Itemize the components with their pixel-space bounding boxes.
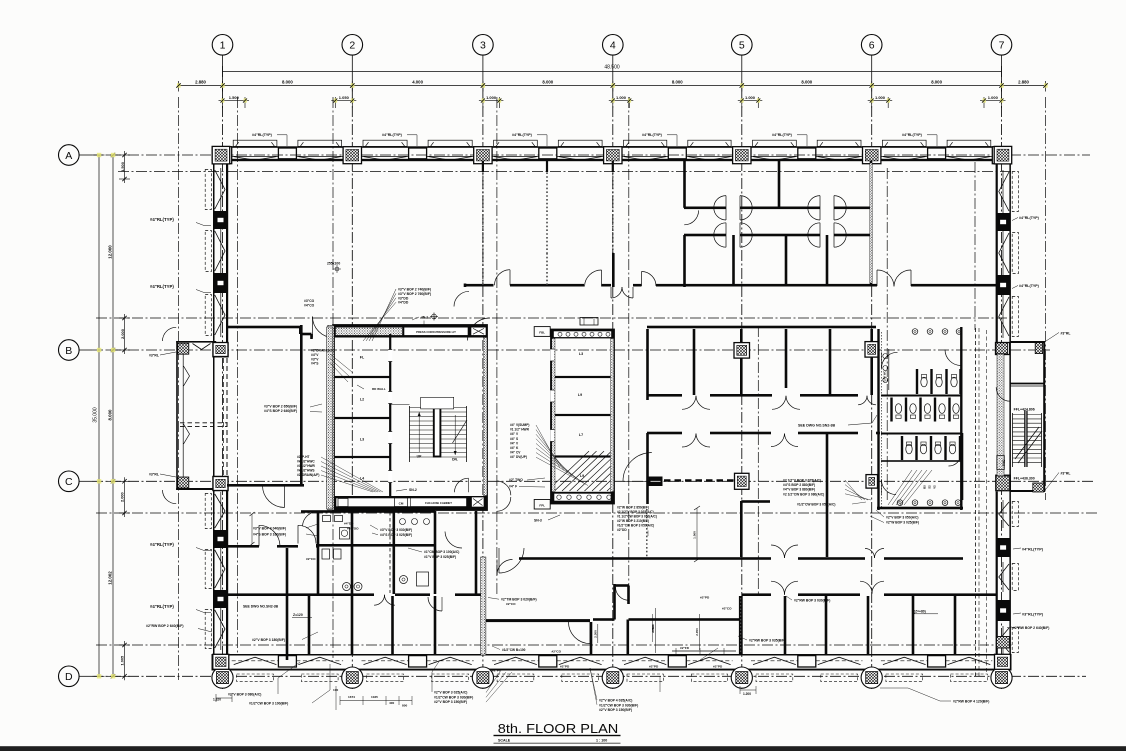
svg-text:6: 6	[869, 40, 875, 52]
svg-text:#4"S BOP 3 025(B/F): #4"S BOP 3 025(B/F)	[380, 533, 412, 537]
column at grid 6 / top wall	[863, 147, 881, 164]
svg-text:#3"DD: #3"DD	[398, 296, 409, 300]
svg-text:1.000: 1.000	[988, 95, 999, 100]
door arc x590	[569, 622, 591, 644]
svg-text:#2 1/2"V BOP 3 025(A/C): #2 1/2"V BOP 3 025(A/C)	[617, 510, 654, 514]
svg-text:#1/2"CW BOP 3 100(B/F): #1/2"CW BOP 3 100(B/F)	[249, 702, 288, 706]
window bay 3-4 mullion pier	[539, 148, 557, 159]
svg-text:FBL: FBL	[539, 331, 545, 335]
svg-text:(Z=+80): (Z=+80)	[914, 610, 926, 614]
svg-text:#1/2"CW BOP 3 050(A/C): #1/2"CW BOP 3 050(A/C)	[797, 503, 836, 507]
grid3 lower wall	[481, 557, 486, 655]
svg-text:2.000: 2.000	[120, 329, 125, 339]
wall room divider x684 upper	[683, 161, 686, 208]
svg-text:#1"V BOP 3 025(B/F): #1"V BOP 3 025(B/F)	[424, 555, 456, 559]
lift door notch	[388, 432, 392, 444]
svg-text:SEE DWG NO.SN2-3B: SEE DWG NO.SN2-3B	[243, 605, 279, 609]
wall notch NE room	[299, 327, 302, 334]
svg-text:8.000: 8.000	[931, 79, 942, 84]
bottom dark bar	[0, 746, 1126, 751]
vertical mini dim 2.350	[699, 614, 701, 650]
column circle at grid 6 / D	[861, 667, 882, 688]
svg-text:#3"CO: #3"CO	[304, 299, 315, 303]
svg-text:SCALE: SCALE	[498, 738, 511, 742]
wall band south y395.3	[647, 394, 682, 397]
svg-text:L9: L9	[580, 474, 584, 478]
wall bottom room divider x785	[784, 596, 787, 654]
svg-text:2.880: 2.880	[1018, 79, 1029, 84]
svg-text:#2"CO: #2"CO	[306, 557, 316, 561]
grid bubble B	[59, 340, 92, 361]
right window	[1002, 231, 1004, 275]
auxiliary grid line	[886, 168, 888, 500]
svg-text:#4"RL(TYP): #4"RL(TYP)	[252, 133, 273, 137]
svg-text:35.000: 35.000	[93, 407, 99, 423]
wall x741 lower	[740, 501, 743, 557]
svg-text:#1 1/2"CW BOP 3 050(A/C): #1 1/2"CW BOP 3 050(A/C)	[617, 515, 657, 519]
svg-text:4N-1: 4N-1	[421, 316, 428, 320]
wall service corridor south y433	[647, 432, 682, 435]
svg-text:#4" V: #4" V	[510, 441, 519, 445]
svg-text:1.000: 1.000	[486, 95, 497, 100]
grid bubble C	[59, 471, 92, 492]
column circle at grid 3 / D	[472, 667, 493, 688]
wall corridor north main	[464, 284, 494, 287]
grid bubble 4	[603, 35, 624, 89]
grid line 1	[222, 88, 224, 689]
bottom mullion pier	[928, 656, 946, 667]
grid bubble 1	[212, 35, 233, 89]
svg-text:#2"DD: #2"DD	[617, 528, 627, 532]
wall room divider x786 band	[785, 329, 788, 388]
wall x591 entrance	[590, 622, 593, 654]
svg-text:#3"RL: #3"RL	[149, 473, 159, 477]
column right wall at B	[996, 343, 1010, 355]
svg-text:#4"V: #4"V	[311, 353, 319, 357]
highlighter mark	[97, 479, 101, 483]
door arc vestibule x641	[642, 272, 657, 287]
hatched block FHE right wall	[997, 637, 1010, 649]
window bay 1-2 window 2	[296, 155, 343, 157]
lift door notch core B	[550, 349, 554, 361]
svg-text:V2: V2	[933, 485, 937, 489]
wall cap x464	[464, 284, 467, 288]
right window	[1002, 295, 1004, 338]
door arcs under band y395	[682, 396, 696, 410]
bottom window	[362, 660, 409, 662]
svg-text:FPL: FPL	[539, 503, 545, 507]
bottom window	[557, 660, 604, 662]
lift door notch core B	[550, 390, 554, 402]
svg-text:#4"RL(TYP): #4"RL(TYP)	[150, 542, 174, 547]
double swing doors corridor x827	[808, 196, 820, 208]
svg-text:L3: L3	[360, 438, 364, 442]
svg-text:#4" S: #4" S	[510, 437, 518, 441]
svg-text:2.000: 2.000	[120, 492, 125, 502]
svg-text:#2"PD: #2"PD	[492, 669, 502, 673]
label 2.500 dim	[654, 608, 656, 653]
column at grid 5 / top wall	[733, 147, 751, 164]
wall band north y327	[647, 326, 876, 329]
left wall dashed segment at stair bay	[226, 342, 228, 490]
svg-text:#4"DD: #4"DD	[398, 301, 409, 305]
corner column grid7/A	[994, 146, 1012, 164]
grid line 3	[482, 88, 484, 689]
bottom window	[427, 660, 474, 662]
svg-text:#4"RL(TYP): #4"RL(TYP)	[150, 604, 174, 609]
right mullion pier	[996, 600, 1010, 621]
auxiliary grid line	[178, 97, 180, 680]
left window	[220, 293, 222, 337]
window bay 2-3 window 2	[427, 155, 474, 157]
wall x287 tall	[286, 548, 289, 660]
svg-text:B5: B5	[923, 485, 927, 489]
left window	[220, 492, 222, 530]
column left wall lower	[213, 343, 228, 357]
svg-text:#4"RL(TYP): #4"RL(TYP)	[772, 133, 793, 137]
column circle at grid 7 / D	[991, 667, 1012, 688]
grid bubble 5	[732, 35, 753, 89]
highlighter mark	[97, 674, 101, 678]
partition stub	[546, 161, 548, 172]
left exterior wall outer line	[213, 146, 215, 660]
svg-text:L3: L3	[579, 352, 583, 356]
svg-text:2.350: 2.350	[695, 628, 699, 636]
wall x547 lower dotted	[546, 253, 548, 285]
overall dimension 35.000	[98, 155, 100, 676]
svg-text:5: 5	[739, 40, 745, 52]
svg-text:#4"RL(TYP): #4"RL(TYP)	[150, 217, 174, 222]
stair treads core A	[410, 407, 467, 409]
dashed partition east of toilets	[975, 328, 977, 676]
column right wall at C	[996, 475, 1011, 491]
svg-text:#H1/2"HWS: #H1/2"HWS	[297, 469, 314, 473]
column bump-out bottom	[213, 477, 228, 491]
wall x740 lower thick	[739, 596, 743, 655]
svg-text:#2"PD: #2"PD	[700, 596, 710, 600]
svg-text:Z=120: Z=120	[293, 613, 303, 617]
svg-text:#4"TOO: #4"TOO	[347, 527, 359, 531]
svg-text:D: D	[65, 671, 73, 683]
dimension chain top	[179, 85, 1046, 87]
right mullion pier	[996, 213, 1010, 231]
small dimensions top	[219, 100, 250, 102]
wall grid4 lower solid	[612, 253, 615, 287]
door arc bump-out top exterior	[163, 327, 177, 341]
window bay 1-2 window 1	[232, 155, 279, 157]
bottom window	[232, 660, 279, 662]
wall room divider x684 lower	[683, 235, 686, 287]
svg-text:1.000: 1.000	[745, 95, 756, 100]
svg-text:#2"V BOP 3 050(A/C): #2"V BOP 3 050(A/C)	[886, 516, 918, 520]
grid line 4	[612, 88, 614, 689]
svg-text:UP: UP	[417, 455, 422, 459]
window bay 5-6 window 2	[816, 155, 863, 157]
window bay 5-6 mullion pier	[798, 148, 816, 159]
svg-text:#2 1/2"V BOP 3 025(A/C): #2 1/2"V BOP 3 025(A/C)	[783, 479, 821, 483]
svg-text:#2"V BOP 4 035(A/C): #2"V BOP 4 035(A/C)	[599, 699, 632, 703]
svg-text:2.880: 2.880	[195, 79, 206, 84]
column left wall at C	[213, 477, 228, 491]
door arc toilets NE	[945, 350, 961, 366]
svg-text:4.000: 4.000	[412, 79, 423, 84]
wall south corridor east y620.6	[486, 619, 590, 622]
right exterior wall outer line	[1009, 146, 1011, 670]
svg-text:800: 800	[402, 704, 407, 708]
wall room divider x733 lower	[732, 235, 735, 285]
bottom mullion pier	[409, 656, 427, 667]
svg-text:#4" DV(UP): #4" DV(UP)	[510, 455, 527, 459]
top exterior wall inner line	[212, 159, 1012, 161]
auxiliary grid line	[96, 317, 1012, 319]
svg-text:SN-2: SN-2	[409, 488, 417, 492]
door arc y546.3	[259, 525, 280, 546]
svg-text:8.000: 8.000	[282, 79, 293, 84]
window bay 4-5 mullion pier	[668, 148, 686, 159]
double swing doors corridor x733	[714, 196, 726, 208]
grid line 7	[1001, 88, 1003, 689]
svg-text:#4"RL(TYP): #4"RL(TYP)	[642, 133, 663, 137]
wall room divider x779	[778, 161, 781, 208]
bottom mullion pier	[668, 656, 686, 667]
highlighter mark	[111, 153, 115, 157]
column C/5 hatched	[735, 473, 750, 489]
svg-text:#3"RL: #3"RL	[1061, 332, 1071, 336]
svg-text:#3"RL: #3"RL	[149, 354, 159, 358]
svg-text:#3"V BOP 3 040(B/F): #3"V BOP 3 040(B/F)	[253, 527, 286, 531]
grid line B	[92, 349, 1050, 351]
auxiliary grid line	[96, 512, 1098, 514]
svg-text:1.000: 1.000	[875, 95, 886, 100]
wall left room y485.3	[227, 484, 304, 487]
fire shutter dashed line at C	[664, 479, 736, 481]
door arc washroom NW	[303, 511, 319, 526]
grid line D	[92, 675, 1086, 677]
left exterior wall inner line C-D	[226, 490, 228, 655]
svg-text:#2"PD: #2"PD	[649, 665, 659, 669]
svg-text:#3"V BOP 2 650(B/F): #3"V BOP 2 650(B/F)	[264, 405, 297, 409]
svg-text:FHC: FHC	[1002, 459, 1006, 466]
svg-text:CM: CM	[399, 501, 404, 505]
svg-text:#4"RL(TYP): #4"RL(TYP)	[902, 133, 923, 137]
svg-text:8.000: 8.000	[108, 409, 113, 421]
stud partition (dotted)	[546, 161, 548, 253]
dimension chain left	[112, 155, 114, 676]
svg-text:#3"RL(TYP): #3"RL(TYP)	[1022, 613, 1044, 617]
grid bubble 6	[861, 35, 882, 89]
svg-text:#2"DRAIN(A/F): #2"DRAIN(A/F)	[311, 349, 334, 353]
svg-text:SN-3: SN-3	[534, 519, 542, 523]
wall grid3 lower dotted	[482, 253, 484, 285]
grid line C	[92, 480, 1093, 482]
corner column grid1/D	[213, 654, 229, 669]
svg-text:1 : 100: 1 : 100	[596, 738, 607, 742]
door arc toilets SE	[949, 454, 962, 467]
left mullion pier	[214, 530, 228, 548]
wall x476 rooms	[475, 511, 478, 594]
door arc toilets upper	[882, 352, 898, 368]
door arc corridor west	[313, 317, 334, 338]
right mullion pier	[996, 538, 1010, 557]
door arcs lift lobby south	[497, 481, 511, 495]
svg-text:1: 1	[220, 40, 226, 52]
right window	[1002, 170, 1004, 213]
svg-text:#2"RW BOP 2 640(B/F): #2"RW BOP 2 640(B/F)	[146, 624, 184, 628]
svg-text:A: A	[65, 150, 72, 162]
door arc vestibule grid4	[616, 587, 629, 600]
svg-text:B: B	[65, 345, 72, 357]
column circle at grid 2 / D	[342, 667, 363, 688]
auxiliary grid line	[332, 97, 334, 658]
door arcs above y558.5	[771, 545, 785, 558]
svg-text:#2"CO: #2"CO	[506, 602, 516, 606]
wall bottom room divider x392.5	[391, 596, 394, 654]
auxiliary grid line	[757, 326, 759, 594]
bottom mullion pier	[278, 656, 296, 667]
svg-text:8.000: 8.000	[672, 79, 683, 84]
wall y501 stub	[741, 500, 770, 503]
svg-text:7: 7	[999, 40, 1005, 52]
highlighter mark	[111, 674, 115, 678]
column circle at grid 4 / D	[602, 667, 623, 688]
wall room divider x827 lower	[826, 235, 829, 285]
overall dimension 48.500	[223, 71, 1002, 73]
svg-text:#4"S BOP 2 880(B/F): #4"S BOP 2 880(B/F)	[783, 483, 815, 487]
core A stair/lift block	[334, 326, 487, 510]
window bay 2-3 window 1	[362, 155, 409, 157]
svg-text:#G1/2"HWR: #G1/2"HWR	[297, 464, 316, 468]
bottom exterior wall outer line	[212, 669, 1012, 671]
svg-text:1025: 1025	[371, 695, 378, 699]
top wall left cap	[212, 146, 214, 161]
door arc x462	[445, 532, 462, 549]
svg-text:#3"V BOP 3 030(B/F): #3"V BOP 3 030(B/F)	[380, 528, 412, 532]
corner column grid1/A	[212, 146, 230, 164]
svg-text:8.000: 8.000	[801, 79, 812, 84]
left mullion pier	[214, 590, 228, 608]
svg-text:8.000: 8.000	[542, 79, 553, 84]
door arcs under y433	[682, 434, 696, 448]
wall room divider x786 lower	[785, 235, 788, 285]
svg-text:#2"RW BOP 4 120(B/F): #2"RW BOP 4 120(B/F)	[953, 700, 989, 704]
washrooms centre	[317, 511, 320, 594]
bottom window	[751, 660, 798, 662]
window bay 4-5 window 1	[622, 155, 668, 157]
wall x963 toilets south block	[961, 433, 964, 500]
wall bottom room divider x435	[434, 596, 437, 654]
right exterior wall inner line A-B	[996, 161, 998, 342]
svg-text:#2"PD: #2"PD	[560, 665, 570, 669]
bottom window	[622, 660, 668, 662]
right mullion pier	[996, 275, 1010, 295]
auxiliary grid line	[974, 162, 976, 330]
svg-text:#1/2"CW B=100: #1/2"CW B=100	[502, 648, 526, 652]
svg-text:FFL+424.806: FFL+424.806	[1014, 407, 1035, 411]
grid bubble 3	[473, 35, 494, 89]
grid line 6	[871, 88, 873, 689]
svg-text:L9: L9	[578, 393, 582, 397]
svg-text:1.000: 1.000	[616, 95, 627, 100]
svg-text:FFL+436.300: FFL+436.300	[1014, 476, 1035, 480]
stud partition (dotted)	[482, 161, 484, 253]
svg-text:#4"DD: #4"DD	[344, 522, 354, 526]
svg-text:#2" TWO: #2" TWO	[509, 478, 523, 482]
corner column grid7/D	[995, 654, 1011, 669]
wall room divider x871	[870, 161, 873, 285]
box FPL	[534, 500, 550, 510]
right window	[1002, 500, 1004, 528]
wall bottom room divider x826	[825, 596, 828, 654]
window bay 4-5 window 2	[686, 155, 732, 157]
svg-text:#4" V: #4" V	[510, 432, 519, 436]
column at grid 1 / top wall	[213, 147, 231, 164]
left exterior wall inner line A-B	[226, 161, 228, 342]
svg-text:#2"TM BOP 3 020(B/F): #2"TM BOP 3 020(B/F)	[501, 598, 537, 602]
door arc stair exit	[455, 478, 469, 492]
survey cross mark	[432, 314, 437, 319]
bottom window	[946, 660, 993, 662]
svg-text:1.200: 1.200	[743, 692, 751, 696]
svg-text:#2"PD: #2"PD	[713, 665, 723, 669]
svg-text:#2"CO: #2"CO	[722, 607, 732, 611]
svg-text:#3"RL: #3"RL	[1061, 472, 1071, 476]
wall bottom room divider x868	[867, 596, 870, 654]
svg-text:8th. FLOOR PLAN: 8th. FLOOR PLAN	[498, 722, 619, 736]
right stair bump-out with stair	[1010, 341, 1045, 343]
svg-text:#3"V BOP 2 740(B/F): #3"V BOP 2 740(B/F)	[398, 288, 431, 292]
column at grid 4 / top wall	[604, 147, 622, 164]
svg-text:#4"RL(TYP): #4"RL(TYP)	[1019, 216, 1040, 220]
bottom wall right cap	[1010, 654, 1012, 671]
partition stub	[482, 161, 484, 172]
svg-text:#2"V BOP 3 150(B/F): #2"V BOP 3 150(B/F)	[599, 708, 632, 712]
svg-text:#2"RW BOP 3 035(B/F): #2"RW BOP 3 035(B/F)	[749, 639, 785, 643]
svg-text:100: 100	[333, 688, 338, 692]
column B/6	[865, 342, 879, 358]
lift door notch	[388, 350, 392, 362]
column bump-out top	[213, 343, 228, 357]
window bay 1-2 mullion pier	[278, 148, 296, 159]
grid bubble A	[59, 145, 92, 166]
window bay 6-7 mullion pier	[928, 148, 946, 159]
window bay 3-4 window 2	[557, 155, 604, 157]
window bay 6-7 window 1	[881, 155, 928, 157]
bottom window	[686, 660, 732, 662]
left window	[220, 168, 222, 211]
window bay 2-3 mullion pier	[409, 148, 427, 159]
bottom window	[816, 660, 863, 662]
svg-text:L7: L7	[579, 433, 583, 437]
svg-text:#4"S BOP 3 160(B/F): #4"S BOP 3 160(B/F)	[253, 533, 286, 537]
bottom window	[296, 660, 343, 662]
svg-text:12.000: 12.000	[108, 245, 113, 259]
svg-text:#1 1/2" HWR: #1 1/2" HWR	[510, 428, 530, 432]
svg-text:L2: L2	[360, 398, 364, 402]
right window	[1002, 626, 1004, 654]
door arc vestibule	[684, 210, 698, 224]
grid line 2	[351, 88, 353, 689]
svg-text:S2: S2	[928, 485, 932, 489]
wall bottom room divider x352	[351, 596, 354, 654]
core B lift block	[552, 330, 614, 503]
auxiliary grid line	[1045, 97, 1047, 500]
svg-text:#2"DRAIN(A/F): #2"DRAIN(A/F)	[297, 473, 319, 477]
svg-text:#2"CO: #2"CO	[552, 649, 562, 653]
right window	[1002, 562, 1004, 592]
wall corridor north (upper block)	[684, 207, 726, 210]
lift door notch core B	[550, 430, 554, 442]
pipe run line	[672, 650, 736, 652]
